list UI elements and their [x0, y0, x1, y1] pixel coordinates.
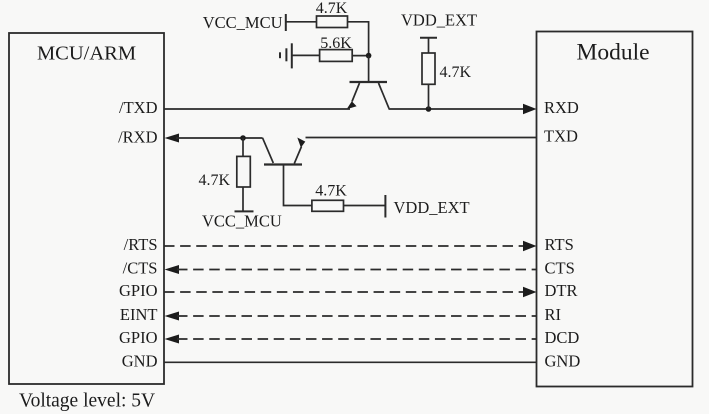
svg-text:DTR: DTR	[545, 281, 578, 300]
svg-text:/RTS: /RTS	[124, 235, 158, 254]
svg-text:GPIO: GPIO	[119, 281, 158, 300]
node C junction dot (/RXD / R4)	[240, 135, 246, 141]
svg-text:MCU/ARM: MCU/ARM	[37, 43, 136, 65]
svg-text:4.7K: 4.7K	[316, 0, 348, 17]
node B junction dot (RXD / R3)	[426, 106, 432, 112]
svg-text:4.7K: 4.7K	[315, 183, 347, 200]
svg-text:Module: Module	[576, 40, 649, 66]
svg-text:CTS: CTS	[545, 259, 575, 278]
svg-text:4.7K: 4.7K	[198, 172, 230, 189]
resistor R5 4.7K (base)	[312, 183, 347, 212]
svg-text:RXD: RXD	[544, 98, 579, 117]
power terminal VCC_MCU (top)	[203, 13, 286, 32]
wire /TXD	[164, 108, 350, 110]
resistor R4 4.7K (VCC_MCU pull-up)	[198, 138, 250, 211]
resistor R2 5.6K	[320, 35, 353, 61]
svg-text:DCD: DCD	[545, 328, 580, 347]
ground	[280, 43, 292, 68]
power terminal VDD_EXT (middle)	[385, 195, 469, 218]
svg-text:/CTS: /CTS	[123, 259, 158, 278]
svg-text:4.7K: 4.7K	[440, 64, 472, 81]
wire RTS dashed with right arrow	[164, 241, 537, 251]
wire DTR dashed with right arrow	[164, 287, 537, 297]
wire VCC_MCU to R1	[286, 21, 317, 23]
wire Q2 base down and to R5	[284, 166, 312, 206]
wire /RXD with arrow into MCU	[165, 134, 263, 143]
resistor R1 4.7K (top)	[316, 0, 348, 28]
transistor Q1	[347, 82, 389, 109]
svg-text:Voltage level: 5V: Voltage level: 5V	[19, 391, 155, 412]
wire TXD (Module to Q2)	[306, 137, 537, 139]
wire CTS dashed with left arrow	[165, 265, 537, 274]
svg-text:EINT: EINT	[120, 305, 158, 324]
transistor Q2	[263, 138, 306, 165]
wire R5 to VDD_EXT terminal	[344, 205, 386, 207]
svg-text:GPIO: GPIO	[119, 328, 158, 347]
MCU/ARM box U1	[9, 33, 164, 384]
svg-text:VCC_MCU: VCC_MCU	[202, 212, 282, 231]
wire GND	[164, 361, 537, 363]
wire ground to R2	[292, 54, 320, 56]
svg-text:/RXD: /RXD	[118, 127, 158, 146]
Module box U2	[537, 32, 693, 387]
svg-text:RTS: RTS	[545, 235, 574, 254]
svg-text:GND: GND	[122, 351, 158, 370]
wire RXD (Q1 collector to Module)	[389, 108, 534, 110]
node A junction dot	[366, 53, 372, 59]
wire node A to Q1 base	[368, 56, 370, 81]
svg-text:TXD: TXD	[544, 127, 578, 146]
wire RI dashed with left arrow	[165, 312, 537, 321]
power terminal VCC_MCU (middle)	[202, 211, 282, 230]
wire DCD dashed with left arrow	[165, 335, 537, 344]
svg-text:VDD_EXT: VDD_EXT	[394, 198, 470, 217]
wire R2 to node A	[352, 55, 368, 57]
svg-text:GND: GND	[545, 351, 581, 370]
svg-text:VCC_MCU: VCC_MCU	[203, 13, 283, 32]
wire R1 to corner and down to node A	[348, 22, 369, 56]
power terminal VDD_EXT (top)	[401, 11, 477, 38]
svg-text:/TXD: /TXD	[119, 98, 158, 117]
svg-text:5.6K: 5.6K	[320, 35, 352, 52]
svg-text:VDD_EXT: VDD_EXT	[401, 11, 477, 30]
resistor R3 4.7K (VDD_EXT pull-up)	[422, 38, 472, 109]
svg-text:RI: RI	[545, 305, 562, 324]
